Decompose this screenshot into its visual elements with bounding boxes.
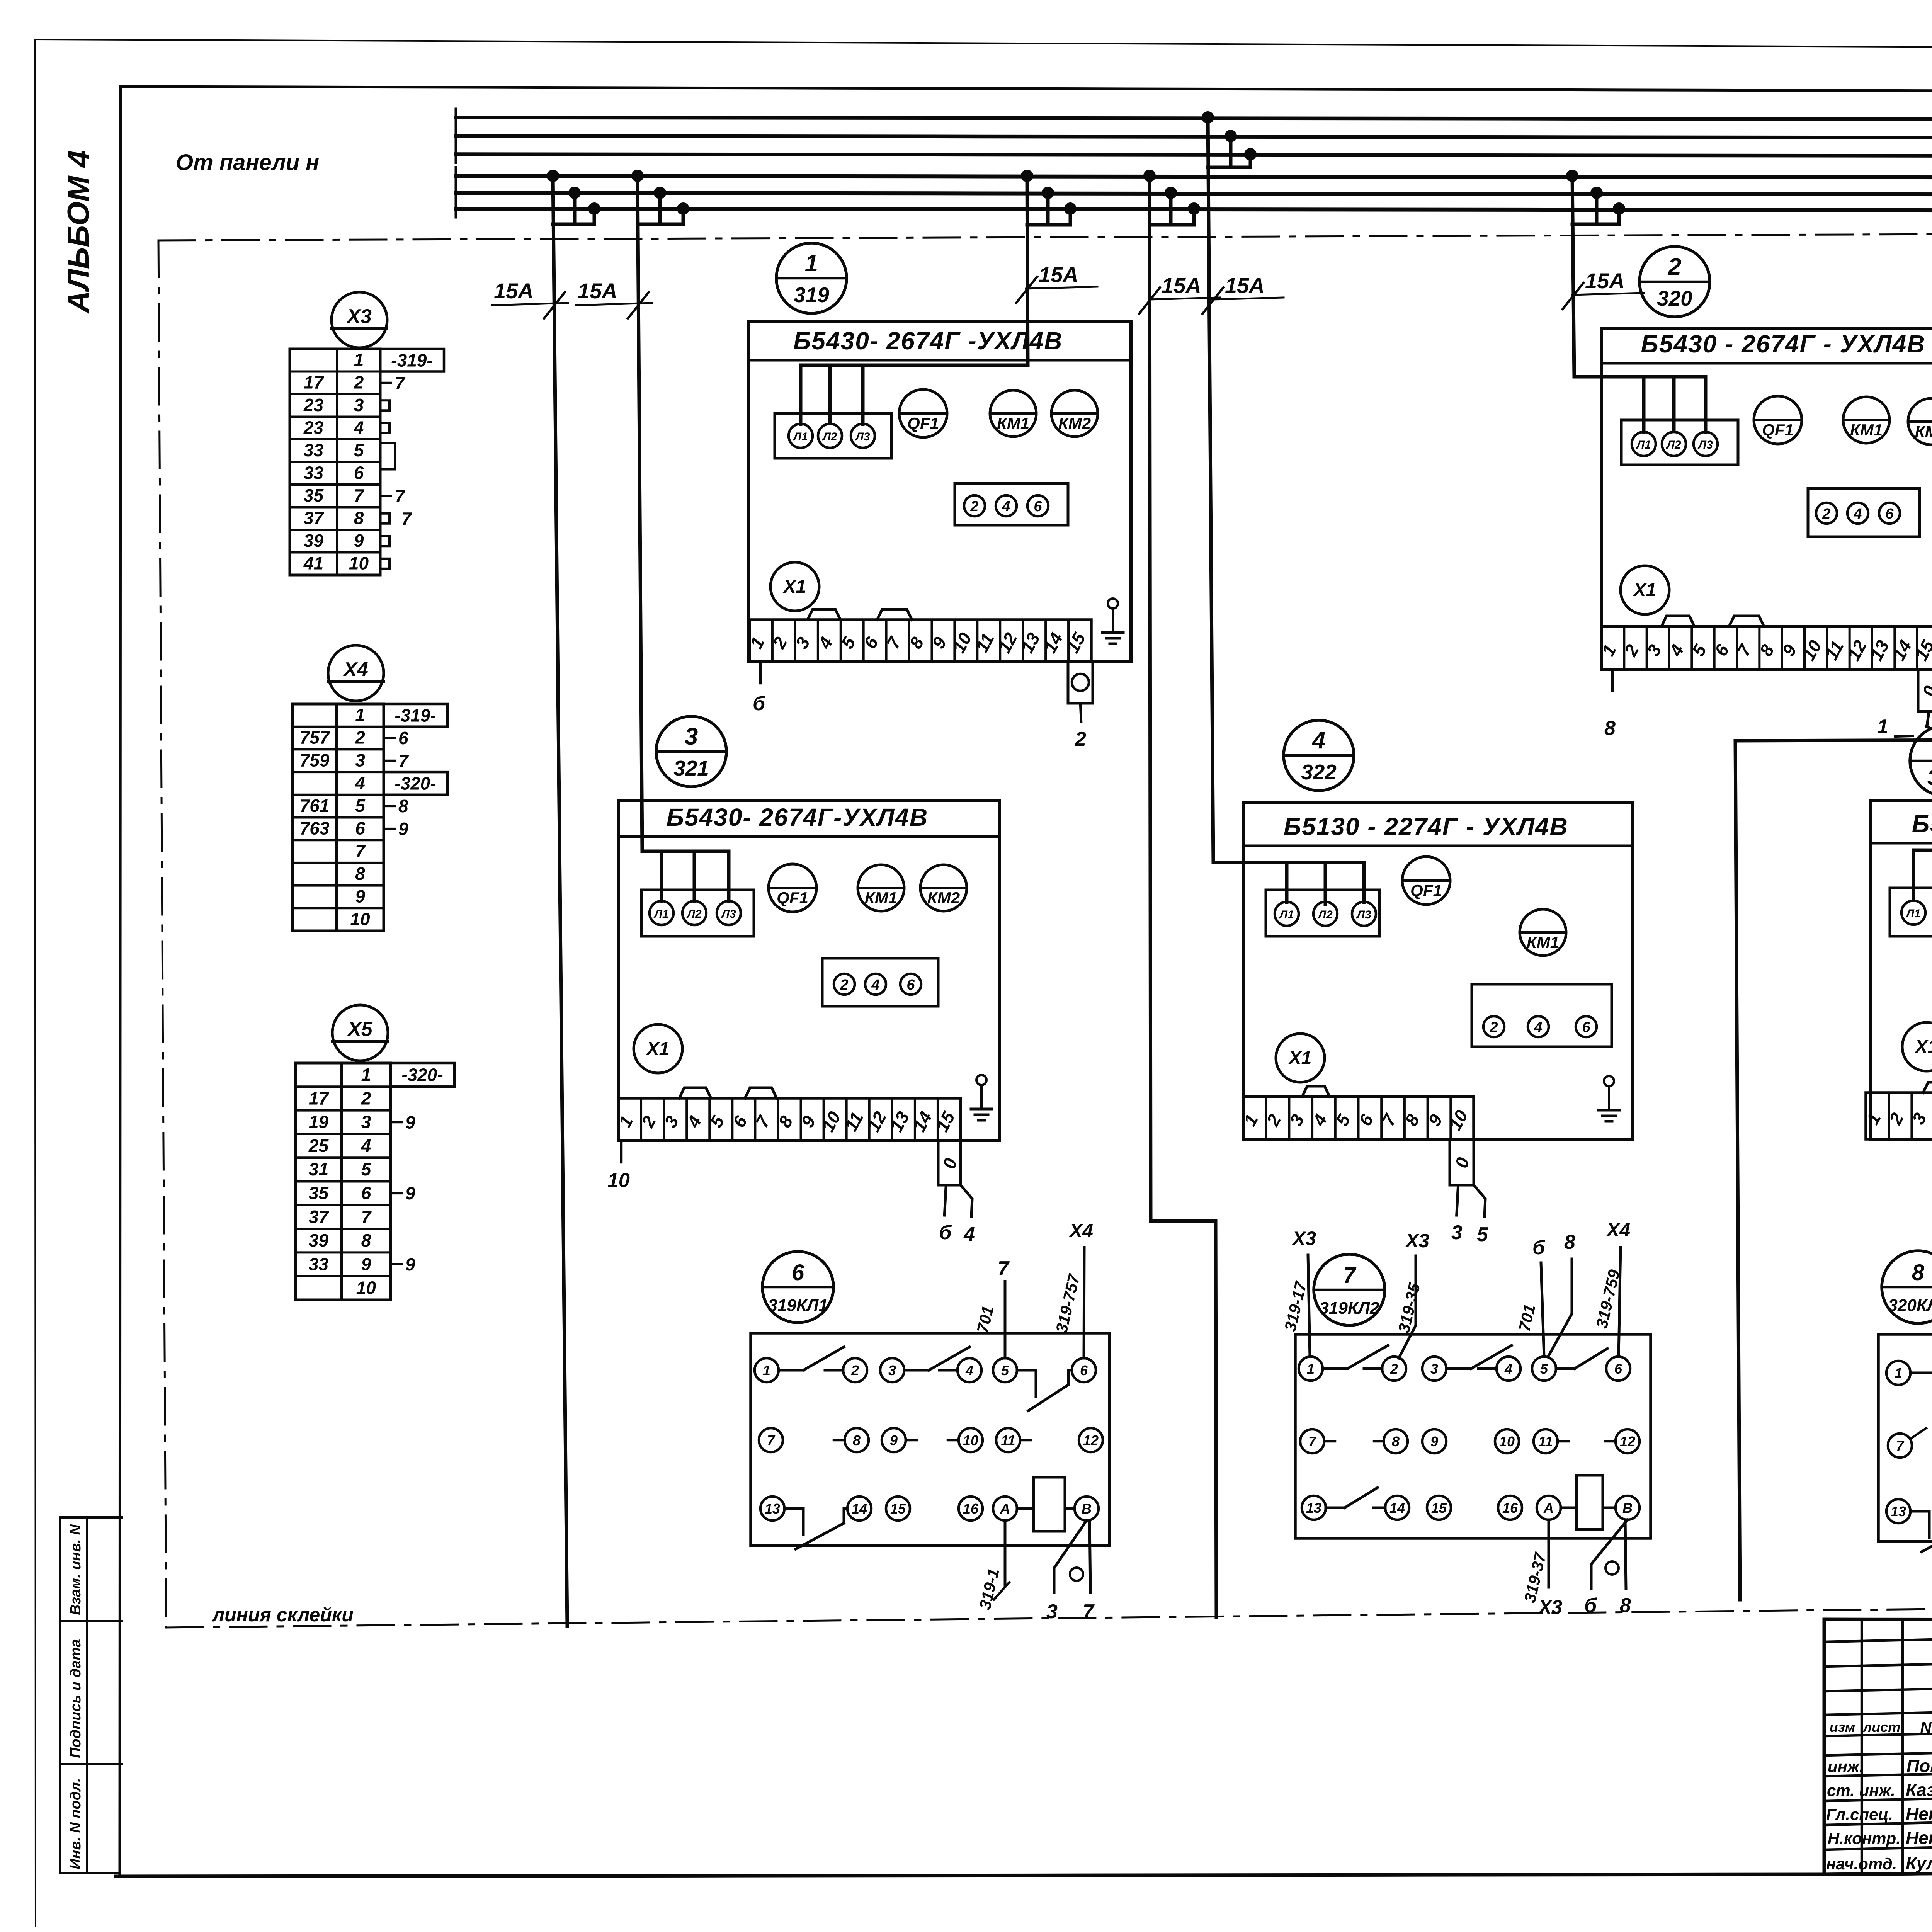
relay6 contact 1-2 (779, 1369, 803, 1372)
terminal 2 3/321 (834, 974, 855, 995)
relay6 pin10 lead (948, 1439, 959, 1442)
svg-text:6: 6 (398, 728, 408, 748)
wire stub under terminal 1 block2 (1611, 670, 1614, 691)
svg-text:5: 5 (361, 1159, 372, 1179)
svg-text:10: 10 (607, 1169, 630, 1192)
terminal strip X1 1/319 (750, 620, 1091, 662)
tap drop wire b (1046, 193, 1050, 225)
bus line L3 (456, 154, 1932, 156)
strip tab 1/319 (877, 609, 912, 620)
relay6 contact 13-14 (784, 1507, 803, 1510)
strip tab 5/323 (1923, 1082, 1932, 1093)
net tag 7 (380, 514, 389, 524)
bus line L3 start tick (455, 146, 457, 163)
svg-text:16: 16 (1502, 1500, 1518, 1516)
svg-text:3: 3 (1046, 1600, 1058, 1623)
svg-text:4: 4 (963, 1223, 975, 1246)
strip tab 3/321 (745, 1088, 777, 1098)
terminal 6 3/321 (900, 974, 921, 995)
designator circle 2/320 (1639, 247, 1710, 317)
svg-text:13: 13 (1891, 1503, 1906, 1519)
fuse mark 15A (492, 303, 568, 305)
relay7 pin В (1616, 1496, 1639, 1520)
title block row line (1824, 1730, 1932, 1736)
relay7 contact 3-4 (1446, 1367, 1471, 1370)
relay6 pin 15 (886, 1497, 910, 1520)
svg-text:1: 1 (354, 350, 364, 370)
svg-text:Некрасов: Некрасов (1906, 1804, 1932, 1824)
contactor КМ2 1/319 (1051, 390, 1098, 437)
svg-text:5: 5 (1477, 1223, 1488, 1246)
svg-text:761: 761 (300, 796, 330, 816)
svg-text:8: 8 (361, 1230, 371, 1250)
terminal strip X1 4/322 (1243, 1097, 1474, 1139)
svg-text:QF1: QF1 (907, 414, 939, 433)
svg-text:-320-: -320- (395, 773, 436, 793)
lamp Л2 4/322 (1313, 902, 1337, 926)
relay6 pin 11 (996, 1428, 1020, 1452)
svg-text:11: 11 (1538, 1434, 1553, 1449)
svg-text:10: 10 (350, 909, 370, 929)
relay7 pin 2 (1382, 1357, 1406, 1381)
svg-text:А: А (1000, 1501, 1010, 1517)
relay6 pin 13 (760, 1497, 784, 1520)
fuse mark 15A (1212, 298, 1284, 299)
strip tab 3/321 (679, 1088, 711, 1098)
wire lamp drop block3 L2 (693, 851, 696, 901)
ground symbol 1/319 (1108, 599, 1118, 609)
relay7 pin 6 (1606, 1357, 1630, 1381)
svg-text:9: 9 (405, 1254, 415, 1274)
wire lamp drop block1 L2 (828, 365, 832, 423)
lamp Л3 4/322 (1352, 902, 1376, 926)
connector X5 terminal table (296, 1063, 391, 1300)
panel boundary bottom (166, 1602, 1932, 1628)
svg-text:2: 2 (1489, 1019, 1498, 1036)
terminal 4 1/319 (996, 495, 1017, 516)
svg-text:Х4: Х4 (1605, 1219, 1630, 1241)
svg-text:31: 31 (309, 1159, 328, 1179)
relay6 pin 8 (845, 1428, 869, 1452)
svg-text:Л2: Л2 (1317, 908, 1333, 921)
net tag -319- (384, 704, 447, 727)
relay7 pin 13 (1302, 1496, 1326, 1520)
svg-text:33: 33 (304, 440, 324, 460)
svg-text:8: 8 (354, 508, 364, 528)
terminal 4 2/320 (1847, 503, 1868, 524)
bus line L5 (456, 193, 1932, 195)
lamp box 3/321 (641, 890, 754, 936)
svg-text:15А: 15А (1162, 273, 1201, 298)
svg-text:757: 757 (300, 728, 330, 748)
breaker QF1 2/320 (1754, 396, 1802, 444)
wire from relay6 pin В straight (1090, 1520, 1090, 1593)
svg-text:12: 12 (1083, 1432, 1099, 1448)
net tag 9 (391, 1192, 401, 1194)
svg-text:2: 2 (1822, 506, 1830, 522)
svg-text:Подпись и дата: Подпись и дата (68, 1639, 84, 1758)
connector X4 designator (328, 645, 384, 701)
tap bracket wire (1150, 223, 1194, 227)
relay6 pin 16 (959, 1497, 983, 1520)
svg-text:37: 37 (309, 1207, 330, 1227)
lamp box 2/320 (1621, 420, 1738, 465)
connector X1 2/320 (1621, 566, 1669, 614)
relay8 contact 13-14 (1910, 1510, 1929, 1513)
svg-text:Л2: Л2 (686, 908, 702, 920)
tap drop wire c (1069, 209, 1072, 225)
spare tag (380, 536, 389, 546)
svg-text:Х5: Х5 (347, 1018, 373, 1041)
svg-text:9: 9 (354, 531, 364, 551)
wire stub under terminal 1 block3 (620, 1141, 623, 1162)
bus tap junction dots at x=3126 (1202, 111, 1214, 124)
connector X1 3/321 (634, 1024, 682, 1073)
relay6 pin8 lead (834, 1439, 845, 1442)
svg-text:В: В (1082, 1501, 1092, 1517)
terminal group 2-4-6 box 3/321 (822, 958, 938, 1006)
lamp box 1/319 (775, 413, 891, 458)
wire from relay7 pin В slanted (1591, 1520, 1628, 1589)
wire lamp drop block3 L1 (660, 851, 663, 901)
relay6 pin 9 (882, 1428, 906, 1452)
svg-text:11: 11 (1001, 1432, 1015, 1448)
svg-text:9: 9 (1430, 1434, 1438, 1449)
panel block 2/320 header rule (1602, 362, 1932, 365)
svg-text:7: 7 (401, 509, 412, 529)
svg-text:7: 7 (1083, 1600, 1095, 1623)
relay6 pin9 lead (906, 1439, 917, 1442)
svg-text:6: 6 (906, 977, 915, 993)
ground symbol 3/321 (976, 1075, 986, 1085)
svg-text:3: 3 (888, 1362, 896, 1378)
connector X1 5/323 (1902, 1022, 1932, 1071)
svg-text:6: 6 (1080, 1362, 1088, 1378)
terminal group 2-4-6 box 4/322 (1472, 984, 1612, 1047)
svg-text:6: 6 (361, 1183, 371, 1203)
relay7 pin А (1537, 1496, 1561, 1520)
strip tab 2/320 (1662, 616, 1694, 626)
bus tap junction dots at x=2658 (1021, 170, 1033, 182)
svg-text:Х3: Х3 (1405, 1230, 1429, 1252)
relay7 pin 3 (1422, 1357, 1446, 1381)
tap bracket wire (638, 223, 683, 226)
svg-text:33: 33 (304, 463, 324, 483)
svg-text:4: 4 (361, 1136, 371, 1156)
bus line L5 start tick (455, 184, 457, 201)
wire lamp drop block2 L1 (1642, 377, 1646, 432)
panel block 3/321 outline (618, 800, 999, 1141)
svg-text:15А: 15А (1225, 273, 1265, 298)
svg-text:-319-: -319- (395, 705, 436, 725)
svg-text:1: 1 (1307, 1361, 1315, 1377)
svg-text:Казакова: Казакова (1906, 1780, 1932, 1800)
svg-text:А: А (1543, 1500, 1554, 1516)
svg-text:б: б (1584, 1594, 1597, 1617)
strip tab 1/319 (808, 609, 840, 620)
wire 319-1 from relay6 pin А down (1004, 1520, 1007, 1586)
svg-text:5: 5 (354, 440, 364, 460)
svg-text:В: В (1622, 1500, 1633, 1516)
svg-text:Х1: Х1 (1633, 580, 1656, 600)
svg-text:4: 4 (1853, 506, 1862, 522)
panel block 1/319 outline (748, 322, 1131, 662)
svg-text:6: 6 (792, 1260, 804, 1285)
relay7 pin 1 (1299, 1357, 1323, 1381)
svg-text:Х3: Х3 (1291, 1228, 1316, 1249)
terminal 6 1/319 (1027, 495, 1048, 516)
designator circle 4/322 (1284, 720, 1354, 791)
svg-text:8: 8 (1620, 1594, 1631, 1617)
terminal 15 sub box 0 (block2) (1918, 670, 1932, 711)
lamp box 4/322 (1266, 890, 1379, 936)
svg-text:16: 16 (963, 1501, 979, 1517)
svg-text:39: 39 (304, 531, 324, 551)
title block row line (1824, 1660, 1932, 1667)
relay7 pin 7 (1300, 1429, 1324, 1453)
svg-text:8: 8 (853, 1432, 861, 1448)
fuse mark 15A (1149, 298, 1220, 299)
drawing frame top (121, 87, 1932, 92)
designator circle 6/319КЛ1 (762, 1252, 833, 1323)
screw circle under relay7 (1605, 1561, 1619, 1575)
wire lamp drop block4 L1 (1285, 862, 1289, 902)
svg-text:8: 8 (1912, 1260, 1925, 1285)
svg-text:7: 7 (1896, 1438, 1905, 1454)
svg-text:8: 8 (1392, 1434, 1400, 1449)
spare tag (380, 559, 389, 569)
tap drop wire c (1617, 209, 1621, 224)
net tag 6 (384, 737, 395, 739)
terminal 2 2/320 (1816, 503, 1837, 524)
svg-text:13: 13 (765, 1501, 780, 1517)
relay6 pin 14 (847, 1497, 871, 1520)
relay6 pin 1 (755, 1358, 779, 1382)
designator circle 1/319 (776, 243, 847, 313)
svg-text:QF1: QF1 (777, 889, 808, 907)
net tag 7 (384, 760, 395, 762)
bus line L6 start tick (455, 200, 457, 217)
svg-text:4: 4 (871, 977, 879, 993)
svg-text:320КЛ1: 320КЛ1 (1888, 1296, 1932, 1315)
svg-text:б: б (753, 692, 766, 715)
svg-text:2: 2 (851, 1362, 859, 1378)
lamp box 5/323 (1890, 888, 1932, 936)
svg-text:6: 6 (354, 463, 364, 483)
svg-text:Б5430- 2674Г-УХЛ4В: Б5430- 2674Г-УХЛ4В (667, 803, 929, 831)
relay6 pin 10 (959, 1428, 983, 1452)
relay7 pin 15 (1427, 1496, 1451, 1520)
svg-text:7: 7 (355, 841, 366, 861)
svg-text:QF1: QF1 (1410, 881, 1442, 900)
svg-text:КМ2: КМ2 (1058, 414, 1091, 432)
svg-text:3: 3 (355, 750, 365, 770)
wire lamp drop block5 L1 (1912, 850, 1915, 900)
title block signature column lines (1861, 1619, 1863, 1874)
svg-text:7: 7 (998, 1257, 1010, 1280)
relay7 pin 14 (1385, 1496, 1409, 1520)
wire 319-35 from X3 to relay7 pin2 (1399, 1256, 1416, 1358)
svg-text:1: 1 (361, 1065, 371, 1085)
svg-text:6: 6 (1582, 1019, 1590, 1036)
breaker QF1 4/322 (1402, 857, 1450, 905)
relay7 pin 8 (1384, 1429, 1408, 1453)
tap drop wire c (1192, 209, 1196, 225)
svg-text:37: 37 (304, 508, 325, 528)
sheet edge left (35, 39, 36, 1926)
svg-text:Взам. инв. N: Взам. инв. N (68, 1524, 84, 1615)
drawing frame left (120, 87, 121, 1875)
wire feeder F4 from bus L4 down between blocks (1150, 176, 1216, 1617)
svg-text:Л1: Л1 (1279, 908, 1294, 921)
relay6 pin11 lead (1020, 1439, 1031, 1442)
relay7 pin 12 (1616, 1429, 1639, 1453)
relay8 pin 1 (1886, 1361, 1910, 1385)
connector X5 designator (332, 1005, 388, 1061)
strip tab 4/322 (1302, 1086, 1330, 1097)
spare tag (380, 423, 389, 433)
relay8 contact 1-2 (1910, 1372, 1932, 1374)
svg-text:3: 3 (354, 395, 364, 415)
svg-text:7: 7 (395, 486, 406, 506)
svg-text:Инв. N подл.: Инв. N подл. (68, 1778, 84, 1869)
panel boundary top (158, 232, 1932, 240)
svg-text:8: 8 (355, 864, 365, 884)
svg-text:25: 25 (308, 1136, 329, 1156)
svg-text:Х1: Х1 (1288, 1048, 1312, 1068)
terminal 10 sub box 0 (block4) (1450, 1139, 1474, 1185)
panel block 2/320 outline (1602, 328, 1932, 670)
svg-text:Х3: Х3 (1537, 1596, 1562, 1618)
svg-text:2: 2 (1390, 1361, 1398, 1377)
svg-text:319КЛ2: 319КЛ2 (1319, 1299, 1379, 1318)
wire lamp drop block2 L3 (1704, 377, 1708, 432)
relay coil (1034, 1477, 1065, 1531)
svg-text:9: 9 (405, 1183, 415, 1203)
svg-text:Х1: Х1 (646, 1039, 670, 1059)
svg-text:10: 10 (963, 1432, 978, 1448)
svg-text:4: 4 (355, 773, 365, 793)
lamp Л1 3/321 (650, 901, 673, 925)
svg-text:7: 7 (767, 1432, 776, 1448)
lamp Л3 3/321 (717, 901, 741, 925)
wire lamp drop block4 L3 (1362, 862, 1366, 902)
svg-text:7: 7 (1343, 1263, 1357, 1288)
fuse mark 15A (576, 303, 652, 305)
svg-text:инж.: инж. (1828, 1757, 1864, 1776)
tap bracket wire (1027, 223, 1070, 227)
bus tap junction dots at x=1650 (631, 170, 644, 182)
contactor КМ2 2/320 (1908, 398, 1932, 445)
wire 701 to relay6 pin5 (1004, 1281, 1007, 1358)
lamp Л3 2/320 (1694, 432, 1718, 456)
net tag 7 (380, 382, 391, 384)
title block row line (1824, 1709, 1932, 1715)
bus tap junction dots at x=4069 (1566, 170, 1578, 182)
svg-text:5: 5 (1540, 1361, 1548, 1377)
relay7 pin 16 (1498, 1496, 1522, 1520)
svg-text:15: 15 (890, 1501, 906, 1517)
wire feeder F5 from bus L1 to block 4 (1208, 117, 1364, 862)
svg-text:Л1: Л1 (1905, 907, 1920, 920)
contactor КМ1 2/320 (1843, 397, 1889, 443)
svg-text:3: 3 (1430, 1361, 1438, 1377)
svg-text:-319-: -319- (391, 350, 432, 370)
relay block 6/319КЛ1 outline (751, 1333, 1109, 1546)
net tag 9 (391, 1263, 401, 1265)
svg-text:N докум.: N докум. (1920, 1719, 1932, 1736)
svg-text:Некрасов: Некрасов (1906, 1828, 1932, 1848)
svg-text:Гл.спец.: Гл.спец. (1826, 1805, 1893, 1823)
svg-text:ст. инж.: ст. инж. (1827, 1781, 1895, 1799)
fuse mark 15A (1572, 293, 1644, 295)
relay7 pin 5 (1532, 1357, 1556, 1381)
svg-text:Б5430- 2674Г -УХЛ4В: Б5430- 2674Г -УХЛ4В (793, 327, 1063, 355)
title block row line (1824, 1844, 1932, 1850)
svg-text:КМ2: КМ2 (1915, 422, 1932, 440)
svg-text:10: 10 (1499, 1434, 1515, 1449)
wire net 8 to relay7 pin5 (1548, 1259, 1572, 1357)
svg-text:13: 13 (1306, 1500, 1321, 1516)
svg-text:8: 8 (1604, 717, 1616, 740)
panel boundary left (158, 240, 166, 1628)
terminal strip X1 3/321 (618, 1098, 961, 1141)
tap bracket wire (1572, 223, 1619, 226)
svg-text:Х3: Х3 (346, 305, 372, 328)
sheet edge top (35, 39, 1932, 50)
svg-text:7: 7 (361, 1207, 372, 1227)
svg-text:12: 12 (1620, 1434, 1635, 1449)
disconnect prongs under terminal 0 (944, 1185, 946, 1215)
svg-text:Л1: Л1 (653, 908, 668, 920)
lamp Л1 1/319 (789, 424, 813, 448)
svg-text:1: 1 (805, 250, 818, 277)
svg-text:КМ2: КМ2 (927, 889, 960, 907)
svg-text:8: 8 (398, 796, 408, 816)
svg-text:изм: изм (1830, 1719, 1855, 1735)
svg-text:763: 763 (300, 818, 330, 838)
connector X1 1/319 (770, 562, 819, 611)
svg-text:Л2: Л2 (1666, 439, 1681, 451)
relay7 contact 13-14 (1326, 1507, 1345, 1509)
terminal 6 4/322 (1576, 1016, 1597, 1037)
svg-text:2: 2 (970, 498, 978, 515)
relay block 7/319КЛ2 outline (1295, 1334, 1651, 1538)
designator circle 3/321 (656, 716, 726, 787)
svg-text:Б5430 - 2674Г - УХЛ4В: Б5430 - 2674Г - УХЛ4В (1641, 330, 1926, 358)
svg-text:15А: 15А (1039, 262, 1078, 287)
terminal strip X1 2/320 (1602, 626, 1932, 670)
svg-text:2: 2 (355, 728, 365, 748)
relay7 pin11 lead (1558, 1440, 1568, 1443)
lamp Л1 5/323 (1901, 901, 1925, 925)
wire lamp drop block1 L3 (861, 365, 865, 424)
contactor КМ1 3/321 (858, 865, 904, 911)
relay7 contact 1-2 (1323, 1367, 1347, 1370)
wire feeder F3 from bus L4 into block 1 (801, 176, 1028, 365)
svg-text:3: 3 (685, 723, 698, 750)
svg-text:17: 17 (309, 1088, 330, 1108)
svg-text:7: 7 (398, 751, 409, 771)
terminal 2 1/319 (964, 495, 985, 516)
bus line L1 start tick (455, 109, 457, 126)
svg-text:4: 4 (1504, 1361, 1512, 1377)
title block row line (1824, 1685, 1932, 1691)
svg-text:6: 6 (355, 818, 365, 838)
svg-text:Л1: Л1 (1636, 439, 1651, 451)
panel block 1/319 header rule (748, 359, 1131, 362)
svg-text:Л3: Л3 (855, 430, 870, 443)
